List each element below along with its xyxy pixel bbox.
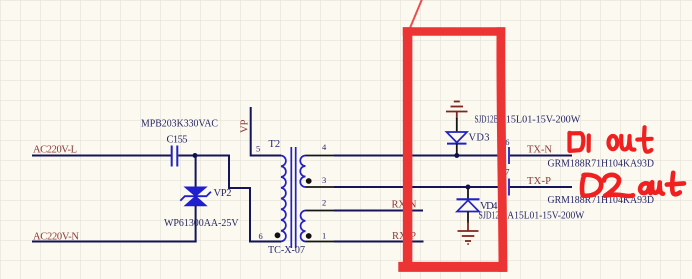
pin 1 stub — [306, 241, 335, 243]
polarity dot pin 1 — [306, 233, 312, 239]
ground below VD4 — [458, 222, 479, 244]
value label GRM188R71H104KA93D (TX-N) — [548, 158, 655, 169]
junction VD3 on TX-N — [454, 153, 459, 158]
pin 3 stub — [306, 186, 335, 188]
net label TX-N — [527, 145, 552, 156]
wire junction to T2 pin 6 — [195, 156, 281, 242]
pin number 4 — [322, 142, 327, 152]
svg-text:VP: VP — [240, 119, 251, 133]
wire net VP to T2 pin 5 — [251, 107, 281, 156]
svg-text:GRM188R71H104KA93D: GRM188R71H104KA93D — [548, 195, 655, 206]
TVS diode VP2 — [180, 187, 211, 206]
diode VD3 — [447, 118, 468, 156]
svg-text:A15L01-15V-200W: A15L01-15V-200W — [507, 211, 584, 222]
value label WP61300AA-25V — [164, 218, 239, 229]
pin number 7 (GRM cap) — [505, 167, 509, 177]
designator C155 — [167, 135, 188, 146]
pin number 5 — [256, 144, 260, 154]
svg-text:TX-N: TX-N — [527, 145, 552, 156]
capacitor C155 — [172, 146, 178, 167]
net label TX-P — [527, 176, 551, 187]
designator T2 — [269, 139, 281, 150]
svg-text:T2: T2 — [269, 139, 281, 150]
svg-text:VP2: VP2 — [214, 188, 232, 199]
designator VP2 — [214, 188, 232, 199]
wire junction down to VP2 — [195, 156, 197, 188]
transformer T2 — [281, 147, 306, 248]
svg-text:C155: C155 — [167, 135, 188, 146]
value label SJD12BA15L01-15V-200W (VD3) — [475, 115, 581, 126]
designator VD4 — [480, 201, 498, 212]
ground above VD3 — [446, 102, 468, 120]
svg-text:WP61300AA-25V: WP61300AA-25V — [164, 218, 239, 229]
svg-text:6: 6 — [259, 231, 263, 241]
capacitor GRM (pin 6) on TX-N — [503, 147, 509, 164]
wire AC220V-N — [32, 241, 197, 243]
pin number 6 — [259, 231, 263, 241]
svg-text:TC-X-07: TC-X-07 — [268, 245, 305, 256]
svg-text:VD3: VD3 — [469, 133, 490, 144]
svg-text:2: 2 — [322, 198, 326, 208]
pin number 3 — [322, 175, 326, 185]
net label RX-P — [392, 231, 416, 242]
red annotation leader line — [410, 0, 423, 28]
svg-text:1: 1 — [322, 231, 326, 241]
svg-text:TX-P: TX-P — [527, 176, 551, 187]
polarity dot pin 6 — [275, 232, 281, 238]
svg-text:MPB203K330VAC: MPB203K330VAC — [141, 118, 218, 129]
capacitor GRM (pin 7) on TX-P — [503, 179, 509, 196]
polarity dot pin 3 — [306, 178, 312, 184]
pin number 6 (GRM cap) — [505, 137, 509, 147]
wire TX-P — [334, 186, 572, 188]
svg-text:AC220V-L: AC220V-L — [33, 145, 77, 156]
pin 2 stub — [306, 210, 335, 212]
wire C155 to junction — [178, 155, 196, 157]
svg-text:15L01-15V-200W: 15L01-15V-200W — [506, 115, 581, 126]
pin number 2 — [322, 198, 326, 208]
value label GRM188R71H104KA93D (TX-P) — [548, 195, 655, 206]
value label TC-X-07 — [268, 245, 305, 256]
handwriting D2 out — [582, 173, 684, 196]
net label AC220V-N — [33, 232, 79, 243]
net label AC220V-L — [33, 145, 77, 156]
net label VP — [240, 119, 251, 133]
wire RX-N — [334, 210, 423, 212]
svg-text:3: 3 — [322, 175, 326, 185]
wire AC220V-L to C155 — [32, 155, 171, 157]
red annotation rectangle — [398, 27, 507, 272]
net label RX-N — [392, 200, 417, 211]
pin number 1 — [322, 231, 326, 241]
handwriting D1 out — [570, 127, 652, 151]
junction VD4 on TX-P — [466, 185, 471, 190]
wire TX-N — [334, 155, 572, 157]
wire VP2 to AC220V-N — [195, 206, 197, 243]
diode VD4 — [457, 187, 480, 223]
svg-text:GRM188R71H104KA93D: GRM188R71H104KA93D — [548, 158, 655, 169]
junction at C155 / VP2 — [193, 153, 198, 158]
designator VD3 — [469, 133, 490, 144]
wire RX-P — [334, 241, 424, 243]
value label MPB203K330VAC — [141, 118, 218, 129]
svg-text:5: 5 — [256, 144, 260, 154]
value label SJD12BA15L01-15V-200W (VD4) — [479, 211, 585, 222]
pin 4 stub — [306, 155, 335, 157]
